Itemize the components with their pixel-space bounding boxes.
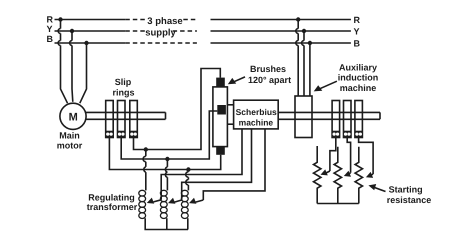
brush bottom — [216, 147, 225, 155]
arrow coil2 tap — [175, 200, 182, 202]
wire R line right solid — [211, 19, 351, 21]
main motor M — [60, 103, 86, 129]
svg-text:M: M — [69, 112, 78, 124]
auxiliary induction machine stator box — [295, 96, 312, 138]
svg-text:Regulating: Regulating — [88, 193, 135, 203]
svg-text:transformer: transformer — [87, 202, 138, 212]
shaft bar main motor to slip rings — [86, 112, 166, 119]
wire B drop right — [309, 43, 311, 96]
svg-text:machine: machine — [239, 118, 274, 128]
svg-text:Y: Y — [46, 24, 52, 34]
resistor R2 starting — [334, 147, 341, 204]
brush middle — [217, 105, 226, 115]
transformer coil 3 — [181, 190, 188, 218]
wire B line right solid — [211, 42, 351, 44]
svg-text:Brushes: Brushes — [250, 64, 286, 74]
wire slip1 to bus3 — [109, 138, 220, 170]
wire B line left solid — [55, 42, 126, 44]
junction dot supply B right — [308, 41, 312, 45]
wire aux brush2 to resistor2 tap — [347, 138, 350, 173]
svg-text:R: R — [354, 15, 361, 25]
wire B line dashed — [125, 42, 197, 44]
arrow brushes label — [232, 77, 246, 83]
junction dot supply R right — [296, 17, 300, 21]
svg-text:3 phase: 3 phase — [147, 16, 182, 27]
junction dot supply Y right — [302, 29, 306, 33]
wire coil2 drop with hops — [165, 159, 167, 190]
brush top — [216, 78, 225, 87]
junction dot Y left — [70, 29, 74, 33]
resistor R3 starting — [355, 147, 362, 204]
svg-text:B: B — [354, 39, 361, 49]
arrow starting label — [373, 187, 386, 192]
wire R drop left with hops — [58, 20, 67, 104]
transformer coil 1 — [139, 190, 146, 218]
wire slip3 to bus1 to top brush — [134, 69, 221, 150]
wire B drop left — [80, 43, 87, 103]
arrow resistor3 tap — [371, 174, 374, 175]
wire R line dashed — [125, 19, 197, 21]
wire Y line right solid — [211, 30, 351, 32]
svg-text:B: B — [47, 34, 54, 44]
junction dot B left — [84, 41, 88, 45]
svg-text:Auxiliary: Auxiliary — [339, 63, 377, 73]
shaft bar scherbius to aux rotor — [278, 112, 380, 119]
svg-text:R: R — [47, 15, 54, 25]
junction dot bus1 coil1 — [144, 147, 148, 151]
aux slip ring 2 — [344, 101, 352, 138]
commutator of Scherbius machine — [213, 87, 228, 147]
svg-text:motor: motor — [57, 141, 83, 151]
wire transformer star bus — [145, 218, 188, 229]
svg-text:resistance: resistance — [387, 195, 432, 205]
wire scherbius v3 to coil3 tap — [203, 129, 265, 200]
svg-text:Scherbius: Scherbius — [236, 107, 277, 117]
arrow coil1 tap — [154, 200, 162, 202]
wire coil3 drop with hops — [186, 170, 189, 191]
svg-text:Y: Y — [354, 27, 360, 37]
junction dot R left — [58, 17, 62, 21]
junction dot bus3 coil3 — [186, 167, 190, 171]
wire R line left solid — [55, 19, 126, 21]
svg-text:rings: rings — [112, 88, 134, 98]
aux slip ring 3 — [355, 101, 363, 138]
wire scherbius v2 to coil2 tap — [182, 129, 252, 200]
svg-text:Main: Main — [59, 131, 80, 141]
slip ring 3 — [130, 101, 138, 138]
svg-text:Slip: Slip — [115, 77, 132, 87]
wire R drop right with hops — [296, 20, 298, 97]
wire Y drop right with hop — [302, 31, 304, 96]
arrow resistor1 tap — [326, 171, 330, 173]
wire Y line dashed — [125, 30, 197, 32]
svg-text:Starting: Starting — [389, 185, 423, 195]
svg-text:supply: supply — [145, 28, 176, 39]
wire commutator stub lower — [227, 123, 233, 125]
arrow auxiliary label — [319, 81, 337, 89]
arrow resistor2 tap — [349, 173, 351, 174]
aux slip ring 1 — [332, 101, 340, 138]
slip ring 1 — [106, 101, 114, 138]
wire aux brush1 to resistor1 tap — [330, 138, 336, 172]
svg-text:120° apart: 120° apart — [248, 75, 291, 85]
svg-text:induction: induction — [338, 73, 379, 83]
junction dot bus2 coil2 — [165, 157, 169, 161]
arrow coil3 tap — [196, 200, 204, 202]
wire scherbius v1 to coil1 tap — [161, 129, 242, 200]
wire Y drop left with hop — [70, 31, 73, 102]
wire commutator stub upper — [227, 104, 233, 106]
wire starting resistance bus — [317, 203, 359, 205]
slip ring 2 — [118, 101, 126, 138]
Scherbius machine box — [234, 100, 279, 129]
wire coil1 drop with hops — [143, 150, 146, 191]
wire Y line left solid — [55, 30, 126, 32]
transformer coil 2 — [160, 190, 167, 218]
wire aux brush3 to resistor3 tap — [359, 138, 374, 175]
wire slip2 to bus2 to middle brush — [121, 111, 217, 159]
svg-text:machine: machine — [340, 83, 377, 93]
resistor R1 starting — [314, 146, 321, 204]
